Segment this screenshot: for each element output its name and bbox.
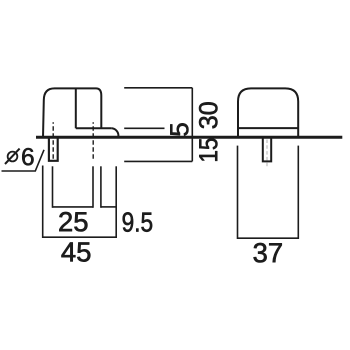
left pin centerline xyxy=(52,122,54,161)
right pin centerline xyxy=(266,140,268,167)
dimension 45 extension left xyxy=(42,166,44,239)
dimension 15 extension bottom xyxy=(124,160,192,162)
mounting surface base line xyxy=(36,136,342,139)
dimension 25 extension right xyxy=(92,166,94,208)
label 30 rotated xyxy=(199,102,217,128)
label 37 xyxy=(254,243,267,262)
left view flange top edge xyxy=(76,127,111,129)
label 25 xyxy=(59,212,72,231)
right view flange line xyxy=(238,127,298,129)
dimension 9.5 line xyxy=(101,206,116,208)
left view body outline xyxy=(43,88,101,137)
dimension 37 line xyxy=(238,237,299,239)
dimension 9.5 extension left xyxy=(100,166,102,208)
right pin outline xyxy=(263,138,271,161)
dimension 25 extension left xyxy=(52,166,54,208)
left pin outline xyxy=(49,138,58,161)
left view flange lip arc xyxy=(111,128,118,136)
dimension 45 line xyxy=(43,236,117,238)
dimension vertical line 30-15 xyxy=(191,88,193,162)
dimension 5 extension xyxy=(124,127,164,129)
label 15 rotated xyxy=(199,139,217,161)
label 5 rotated xyxy=(170,123,188,135)
dimension 45 extension right xyxy=(115,166,117,238)
diameter symbol slash xyxy=(5,149,20,164)
dimension 30 15 extension top xyxy=(124,87,192,89)
hidden pin position line xyxy=(92,122,94,161)
label 45 xyxy=(61,242,75,261)
label diameter value 6 xyxy=(22,148,33,165)
right view body outline xyxy=(238,88,298,137)
dimension 37 extension left xyxy=(237,146,239,239)
dimension 37 extension right xyxy=(297,146,299,239)
diameter symbol circle xyxy=(8,152,18,162)
dimension 25 line xyxy=(53,206,94,208)
label 9.5 xyxy=(123,212,133,231)
left view step edge xyxy=(75,88,77,128)
leader line diameter 6 xyxy=(2,150,45,171)
